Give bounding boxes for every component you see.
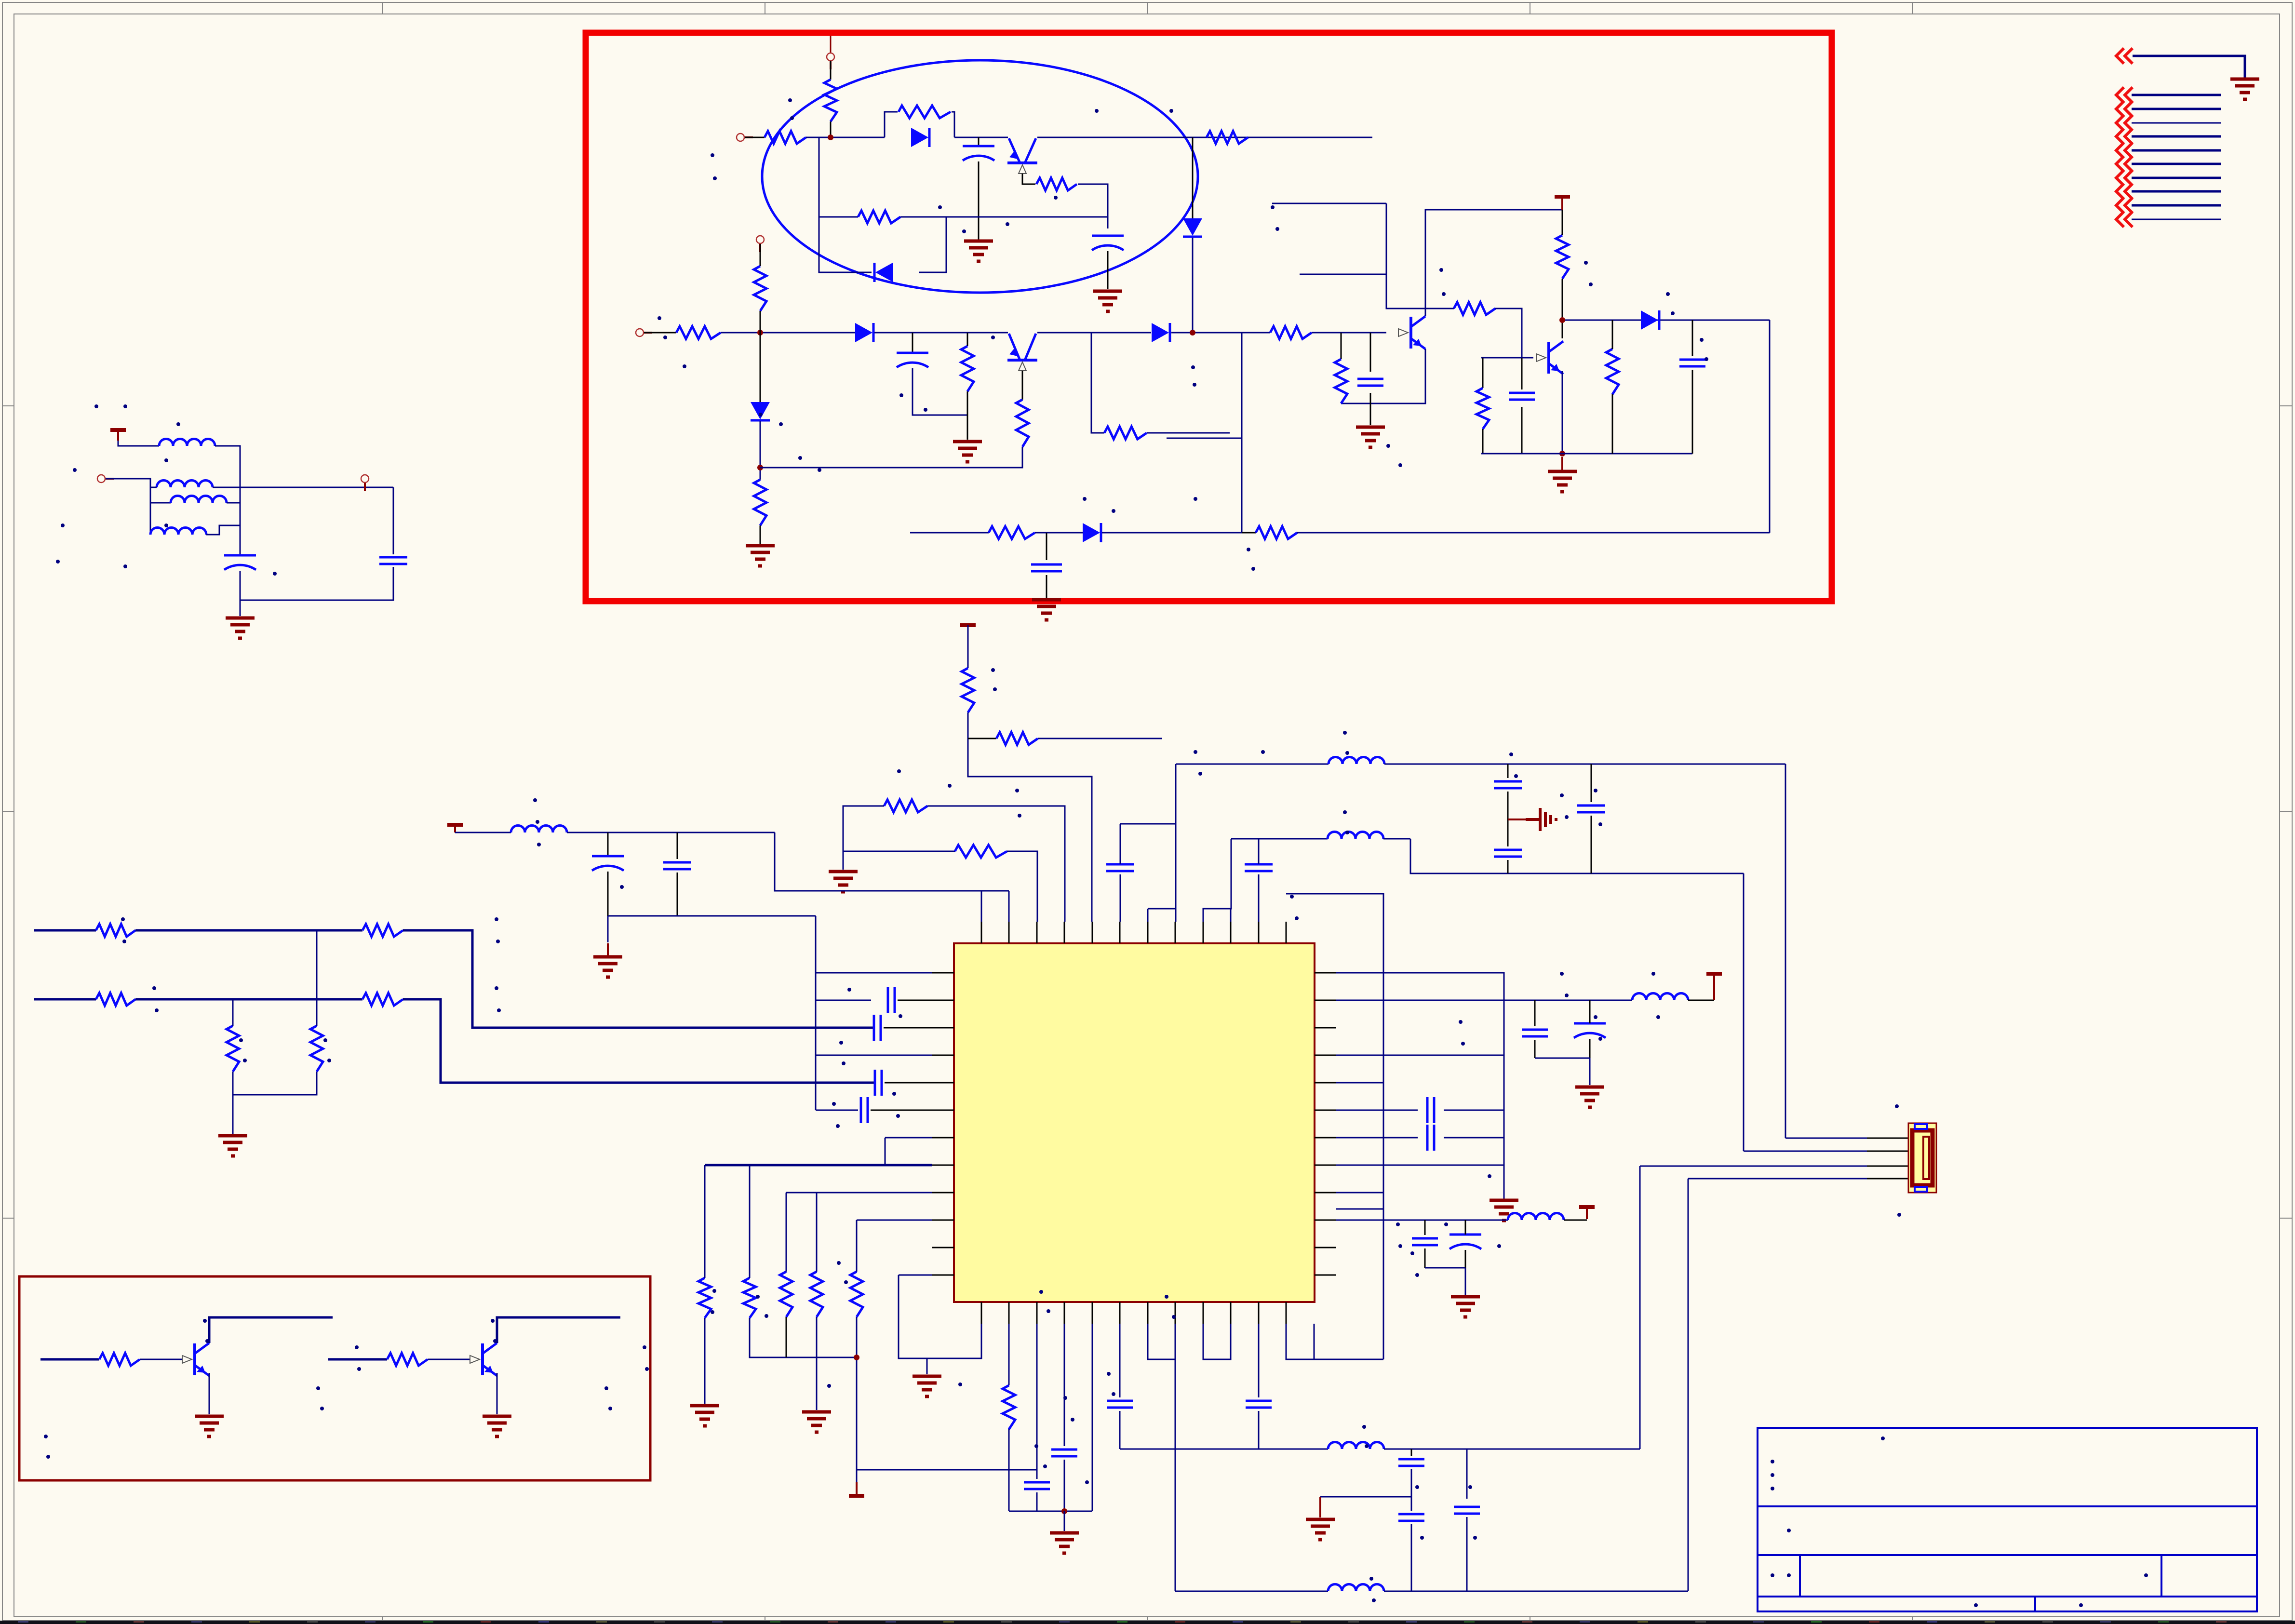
resistor R26 [362,924,403,937]
wire [968,738,996,739]
wire [1424,1248,1426,1268]
wire [1022,371,1023,400]
capacitor C18 [1494,781,1522,788]
junction [1190,330,1195,336]
diode D1 [911,128,929,147]
diode D8 [1083,523,1101,542]
wire [1341,349,1425,403]
terminal P4 [756,236,764,252]
wire [1286,894,1383,1359]
inductor L6 [1329,757,1384,765]
red arrow A9 [2116,198,2133,213]
wire [885,112,898,137]
power VCC2 [110,430,126,441]
wire [819,216,858,218]
wire [1175,764,1177,922]
wire [1230,909,1232,922]
wire [954,137,1008,138]
wire [1564,1220,1587,1221]
wire [1425,1267,1465,1269]
terminal P1 [737,134,753,141]
wire [328,1358,387,1361]
wire [816,1193,818,1272]
wire [403,930,873,1028]
ground [1050,1533,1079,1553]
wire [1410,839,1744,873]
wire [1120,824,1121,864]
wire [871,1110,932,1111]
ground [1575,1087,1604,1107]
wire [2132,135,2221,138]
wire [1176,764,1329,765]
ground [964,241,993,261]
resistor R20 [1256,526,1297,539]
capacitor C32 [1398,1514,1424,1521]
wire [240,567,393,600]
wire [1386,203,1454,309]
wire [1370,403,1371,425]
wire [1258,874,1260,922]
wire [1336,1055,1383,1056]
resistor R4 [1036,178,1077,190]
inductor L5 [511,826,567,833]
wire [135,998,362,1001]
wire [1495,309,1533,358]
red arrow A10 [2116,212,2133,227]
wire [899,1275,932,1276]
wire [40,1358,99,1361]
wire [1589,1000,1591,1023]
wire [677,832,678,859]
wire [209,1317,333,1343]
wire [1091,333,1104,433]
wire [213,487,240,488]
wire [843,806,884,870]
red arrow A7 [2116,170,2133,186]
wire [1535,1058,1590,1059]
capacitor C21 [1522,1030,1548,1036]
wire [1508,819,1526,820]
capacitor C27 [1024,1482,1050,1489]
junction [828,134,833,140]
ground [1490,1200,1518,1221]
wire [1466,1517,1468,1591]
inductor L11 [1328,1584,1384,1592]
wire [644,332,676,334]
resistor R13 [1270,326,1312,339]
wire [364,483,366,487]
wire [150,487,171,503]
wire [1507,792,1509,846]
wire [1120,823,1176,825]
resistor R1 [765,131,806,144]
wire [1507,764,1509,778]
ground [953,442,982,462]
capacitor C6 [1679,360,1705,366]
wire [1320,1496,1411,1498]
wire [981,891,982,922]
capacitor C25 [1412,1238,1438,1245]
diode D7 [1641,310,1659,330]
wire [227,502,240,504]
ground sideways [1526,808,1556,831]
ground [226,618,255,638]
wire [704,1165,706,1278]
wire [967,391,968,440]
diode D4 [751,402,770,420]
resistor R23 [884,800,927,812]
wire [1591,764,1592,802]
terminal P3 [636,329,652,336]
wire [428,1359,470,1360]
wire [1562,210,1563,235]
wire [1612,394,1613,454]
capacitor C29 [1107,1401,1133,1408]
wire [1035,532,1086,534]
wire [1336,1110,1418,1111]
wire [760,525,761,544]
wire [1064,1324,1065,1446]
resistor R19 [989,526,1035,539]
wire [1120,874,1121,922]
wire [240,446,241,554]
wire [206,525,240,535]
capacitor C7 [1031,564,1062,571]
resistor R33 [780,1272,792,1317]
red arrow A2 [2116,101,2133,117]
resistor R15 [1556,235,1569,279]
wire [607,916,609,942]
wire [1078,184,1108,228]
resistor R17 [1476,388,1489,429]
wire [1867,1166,1908,1167]
ground [1548,457,1577,492]
transistor Q4 [1536,341,1563,374]
inductor L10 [1328,1442,1384,1450]
diode D3 [1183,218,1202,237]
wire [1312,332,1386,334]
wire [497,1317,620,1343]
capacitor C24 [1427,1125,1434,1151]
wire [1008,1324,1010,1385]
wire [1092,1324,1093,1511]
wire [1688,1000,1714,1001]
wire [927,806,1065,922]
resistor R10 [961,346,974,391]
wire [608,915,816,917]
power VCC3 [960,623,976,627]
wire [1336,1055,1383,1083]
wire [1148,1324,1175,1359]
wire [1444,1137,1504,1139]
wire [1203,839,1231,922]
wire [1336,973,1504,1199]
ground [913,1376,941,1396]
wire [1521,407,1523,454]
resistor R11 [1016,400,1029,447]
inductor L4 [150,528,206,535]
ground [1451,1297,1480,1317]
power VCC6 [1579,1207,1595,1219]
wire [106,479,157,487]
transistor Q5 [182,1343,209,1376]
red arrow A1 [2116,87,2133,103]
wire [760,447,1022,468]
wire [760,244,761,266]
wire [2132,108,2221,110]
wire [454,825,456,832]
wire [455,832,511,833]
wire [1102,532,1242,534]
wire [775,832,1009,891]
wire [1147,909,1149,922]
wire [2132,163,2221,165]
red arrow A8 [2116,184,2133,199]
wire [806,137,885,138]
wire [967,333,968,346]
wire [704,1318,706,1404]
wire [857,1220,932,1221]
wire [1286,1324,1314,1359]
wire [1383,838,1410,840]
wire [2133,56,2245,78]
wire [118,441,159,446]
wire [1562,279,1563,338]
junction [854,1355,859,1360]
wire [1038,738,1162,739]
wire [1507,860,1509,873]
wire [1203,1324,1231,1359]
wire [1384,1449,1640,1450]
wire [967,625,969,668]
resistor R28 [362,993,403,1006]
wire [1336,1165,1504,1166]
inductor L3 [171,496,227,503]
wire [215,446,240,479]
wire [885,1082,932,1084]
wire [786,1193,787,1272]
resistor R29 [227,1026,239,1072]
wire [150,503,151,535]
wire [1411,1449,1412,1456]
blue ellipse annotation [762,60,1198,293]
inductor L7 [1328,832,1383,839]
capacitor C12 [888,987,895,1013]
wire [1521,358,1523,389]
capacitor C1 [963,146,994,161]
wire [1036,1324,1038,1479]
terminal P2 [827,53,834,69]
wire [1022,174,1035,184]
ground [218,1136,247,1156]
title text dots [1771,1436,2148,1607]
wire [135,929,362,932]
wire [1562,320,1770,321]
transistor Q3 [1398,316,1425,349]
capacitor C2 [1092,236,1124,250]
resistor R16 [1454,302,1495,315]
wire [1336,1000,1632,1001]
wire [1258,839,1260,864]
wire [1008,1429,1010,1511]
wire [830,36,832,53]
resistor R37 [99,1353,140,1366]
wire [1383,1055,1504,1056]
dark red box [19,1276,650,1480]
wire [1242,532,1256,534]
wire [1037,332,1151,334]
wire [1444,1110,1504,1111]
ground [483,1416,511,1436]
wire [760,311,761,403]
resistor R22 [996,732,1038,745]
power VCC1 [1555,197,1570,210]
wire [1639,1166,1641,1449]
wire [1482,358,1484,388]
wire [1008,891,1010,922]
wire [1612,320,1613,349]
junction [1559,317,1565,323]
wire [1193,137,1372,138]
inductor L8 [1632,993,1688,1001]
capacitor C23 [1427,1097,1434,1123]
wire [607,872,609,916]
wire [1481,453,1692,455]
wire [856,1220,858,1272]
wire [1192,137,1194,219]
wire [1482,429,1484,454]
wire [1384,1591,1688,1592]
wire [1589,1058,1591,1085]
wire [2132,177,2221,179]
wire [968,712,1092,922]
wire [1171,332,1270,334]
wire [1009,1511,1092,1512]
capacitor C16 [1106,864,1134,871]
wire [2132,190,2221,193]
ground [829,872,858,892]
wire [1192,238,1194,333]
ground [690,1406,719,1426]
resistor R9 [754,480,766,525]
ground [1356,427,1385,447]
wire [1744,1151,1867,1152]
wire [1336,1193,1383,1209]
resistor R6 [858,211,900,223]
resistor R18 [1606,349,1619,394]
wire [760,421,761,480]
wire [900,216,1108,218]
wire [1466,1449,1468,1499]
red arrow A0 [2116,48,2133,64]
wire [607,832,609,856]
wire [816,1317,818,1410]
wire [1411,1469,1412,1511]
wire [749,1165,751,1278]
resistor R24 [955,845,1007,858]
wire [240,487,393,488]
wire [2132,94,2221,96]
wire [1107,251,1109,289]
diode D5 [855,323,873,342]
inductor L9 [1508,1213,1564,1221]
resistor R30 [310,1026,323,1072]
resistor R12 [1104,427,1147,439]
capacitor C3 [897,353,928,367]
wire [1297,532,1770,534]
ground [2230,79,2259,99]
transistor Q2 [1007,334,1037,371]
capacitor C31 [1398,1459,1424,1466]
inductor L2 [157,481,213,488]
wire [1046,575,1047,598]
ground [593,943,622,977]
power VCC4 [447,823,463,827]
wire [830,121,832,137]
wire [1064,1511,1065,1531]
wire [843,851,955,852]
resistor R21 [962,668,974,712]
wire [1119,1411,1121,1449]
wire [232,1095,234,1134]
IC U1 pins [932,922,1336,1324]
wire [1465,1220,1466,1235]
ground [1093,291,1122,311]
wire [816,1055,932,1056]
capacitor C15 [861,1097,868,1123]
junction2 [0,0,0,0]
wire [816,1110,858,1111]
wire [1037,137,1193,138]
wire [1785,764,1786,1138]
red highlight box [586,33,1832,601]
wire [1175,1359,1176,1591]
power VBAT [849,1482,864,1496]
wire [34,998,96,1001]
wire [898,1000,932,1001]
wire [1007,851,1037,922]
resistor R5 [1207,131,1248,144]
resistor R2 [824,80,837,121]
wire [1688,1179,1689,1591]
wire [1319,1497,1321,1517]
wire [316,930,318,1026]
capacitor C10 [592,856,624,871]
wire [1258,1411,1260,1449]
wire [856,1317,858,1470]
wire [874,332,1008,334]
wire [1785,1138,1867,1139]
wire [34,929,96,932]
wire [1743,873,1745,1151]
transistor Q6 [470,1343,497,1376]
wire [1167,438,1242,439]
wire [1336,1137,1418,1139]
wire [1769,320,1771,533]
capacitor C26 [1449,1235,1481,1249]
power VCC5 [1706,974,1722,1000]
capacitor C28 [1051,1450,1077,1456]
wire [240,571,241,600]
ground [802,1412,831,1432]
capacitor C20 [1577,805,1605,812]
wire [1481,357,1522,359]
resistor R34 [810,1272,823,1317]
wire [1411,1524,1412,1591]
wire [978,137,980,146]
capacitor C5 [1509,393,1535,400]
wire [750,1318,859,1357]
